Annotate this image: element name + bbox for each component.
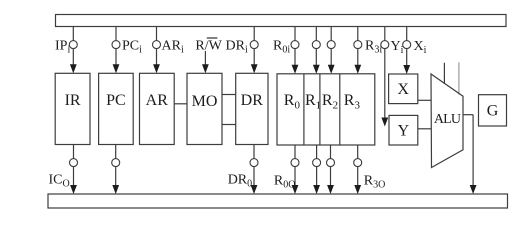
svg-text:IPi: IPi (55, 39, 70, 56)
top bus (56, 15, 507, 27)
wire R_3i (357, 27, 359, 66)
terminal PC_i (112, 41, 120, 49)
arrow into Y (381, 118, 388, 127)
register file divider 1 (303, 74, 305, 145)
arrow into R_2 (328, 65, 335, 74)
terminal DR_i (250, 41, 258, 49)
wire DR output (253, 145, 255, 186)
svg-text:R0i: R0i (273, 39, 290, 56)
arrow into R_0 (292, 65, 299, 74)
wire MO to DR upper (222, 94, 236, 96)
terminal R_2i (327, 41, 335, 49)
svg-text:R3: R3 (344, 92, 361, 112)
wire Y to ALU (418, 128, 431, 130)
register IR (55, 73, 90, 144)
svg-text:R2: R2 (322, 92, 338, 112)
svg-text:DRi: DRi (226, 39, 248, 56)
register X (389, 74, 418, 104)
wire ALU input a (443, 63, 445, 84)
wire R_2i (330, 27, 332, 66)
ALU (431, 74, 463, 168)
arrow R_2 out to bus (327, 185, 334, 194)
svg-text:ALU: ALU (434, 112, 461, 127)
svg-text:PCi: PCi (122, 39, 142, 56)
terminal AR_i (153, 41, 161, 49)
register DR (236, 73, 268, 144)
svg-text:R0: R0 (284, 92, 301, 112)
register G (479, 95, 507, 126)
terminal Y_i (381, 41, 389, 49)
arrow PC out to bus (112, 185, 119, 194)
terminal R_3 out (354, 159, 362, 167)
register file outline (277, 74, 375, 145)
arrow into X (403, 65, 410, 74)
wire AR to MO (174, 103, 187, 105)
arrow R_0 out to bus (292, 185, 299, 194)
wire R_0i (294, 27, 296, 66)
svg-text:MO: MO (192, 93, 218, 110)
arrow into PC (113, 64, 120, 73)
block MO (187, 73, 222, 144)
wire R_3 output (357, 145, 359, 186)
wire AR_i (156, 27, 158, 66)
svg-text:AR: AR (146, 92, 169, 109)
register AR (140, 73, 175, 144)
terminal R_1i (312, 41, 320, 49)
svg-text:R0O: R0O (274, 174, 296, 191)
wire R_1 output (316, 145, 318, 186)
bottom bus (48, 194, 508, 208)
wire ALU output vertical (472, 115, 474, 186)
overline of W (207, 37, 218, 39)
svg-text:X: X (397, 81, 409, 98)
arrow ALU out to bus (470, 185, 477, 194)
arrow R_1 out to bus (313, 185, 320, 194)
arrow into MO (202, 64, 209, 73)
register file divider 3 (339, 74, 341, 145)
terminal IR out (70, 159, 78, 167)
svg-text:R3i: R3i (365, 39, 382, 56)
wire ALU output horizontal (463, 114, 473, 116)
wire R/W (204, 51, 206, 65)
svg-text:ICO: ICO (49, 173, 70, 190)
wire IR output (73, 145, 75, 186)
arrow into R_3 (354, 65, 361, 74)
terminal R_0i (291, 41, 299, 49)
arrow into R_1 (313, 65, 320, 74)
wire R_1i (315, 27, 317, 66)
svg-text:DR: DR (241, 92, 264, 109)
terminal PC out (112, 159, 120, 167)
arrow IR out to bus (70, 185, 77, 194)
wire R_2 output (330, 145, 332, 186)
terminal DR out (250, 159, 258, 167)
arrow DR out to bus (251, 185, 258, 194)
svg-text:Y: Y (398, 123, 410, 140)
svg-text:PC: PC (106, 92, 126, 109)
register Y (389, 115, 418, 145)
wire ALU input b (458, 62, 460, 94)
wire R_0 output (294, 145, 296, 186)
svg-text:DR0: DR0 (228, 173, 252, 190)
terminal R_2 out (327, 159, 335, 167)
arrow into IR (70, 64, 77, 73)
arrow into AR (153, 64, 160, 73)
terminal R_1 out (313, 159, 321, 167)
wire PC_i (115, 27, 117, 66)
svg-text:R3O: R3O (364, 174, 386, 191)
terminal R_3i (354, 41, 362, 49)
register PC (99, 73, 134, 144)
wire X_i (406, 27, 408, 66)
svg-text:G: G (487, 103, 499, 120)
svg-text:R1: R1 (305, 92, 321, 112)
svg-text:Yi: Yi (391, 39, 404, 56)
svg-text:Xi: Xi (414, 39, 427, 56)
wire Y_i (384, 27, 386, 119)
terminal IP_i (69, 41, 77, 49)
terminal X_i (403, 41, 411, 49)
wire MO to DR lower (222, 124, 236, 126)
wire IP_i (72, 27, 74, 66)
wire X to ALU (418, 99, 431, 101)
wire DR_i (253, 27, 255, 66)
arrow into DR (251, 64, 258, 73)
svg-text:R/W: R/W (195, 39, 222, 54)
svg-text:ARi: ARi (162, 39, 184, 56)
arrow R_3 out to bus (354, 185, 361, 194)
wire PC output (115, 145, 117, 186)
svg-text:IR: IR (65, 92, 81, 109)
terminal R_0 out (291, 159, 299, 167)
register file divider 2 (319, 74, 321, 145)
